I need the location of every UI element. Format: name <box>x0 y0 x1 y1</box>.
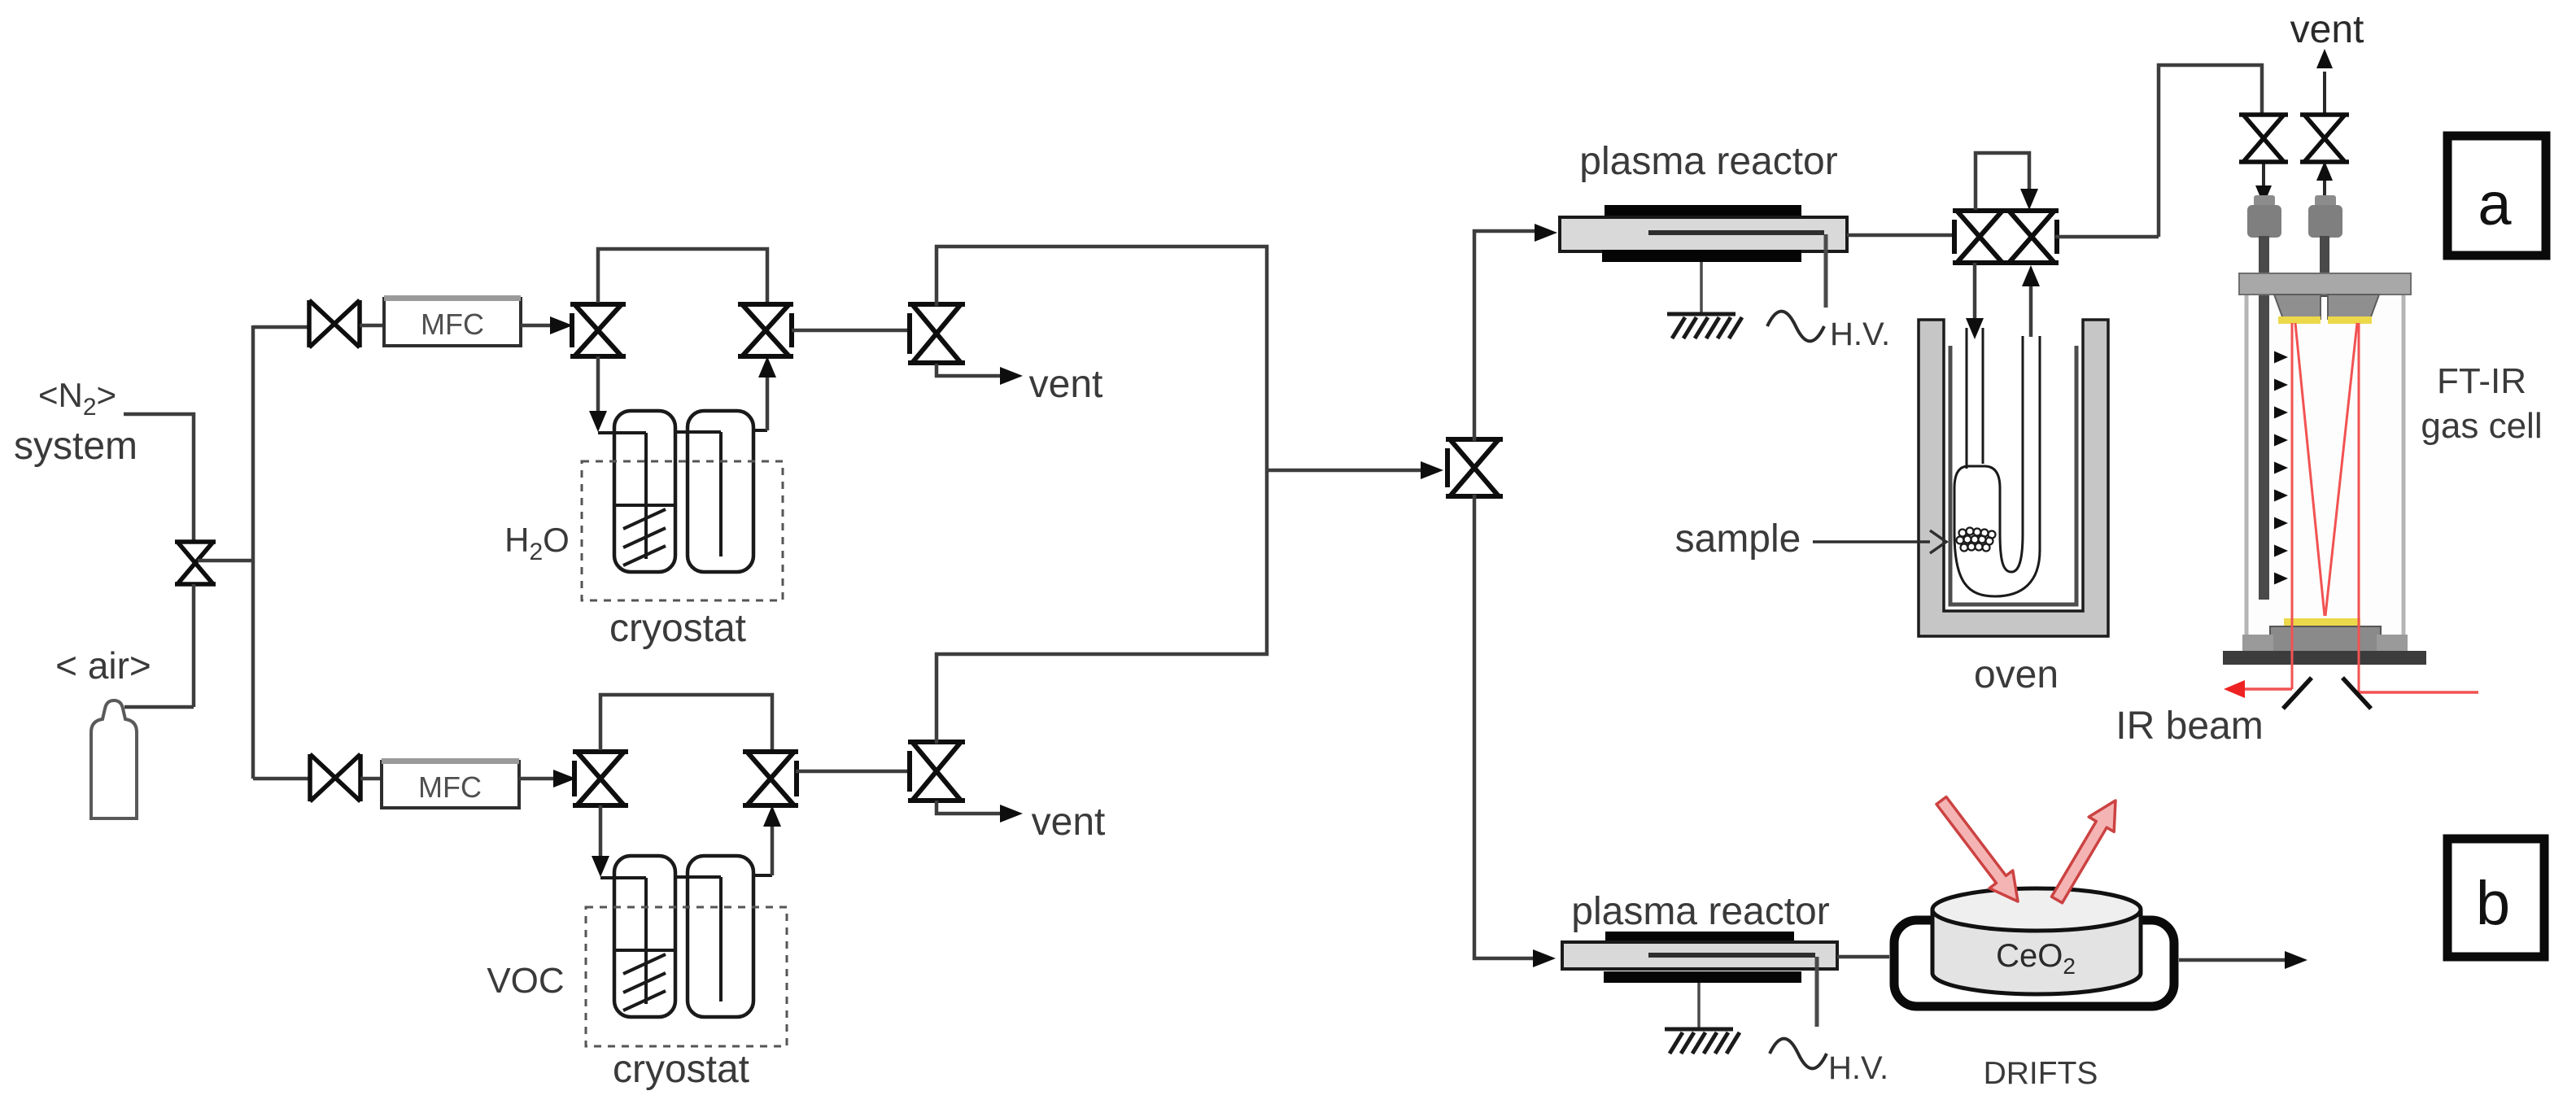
sample tube up leg <box>2023 336 2040 552</box>
svg-text:DRIFTS: DRIFTS <box>1984 1056 2098 1091</box>
sample powder <box>1957 528 1996 552</box>
node air label <box>55 644 151 687</box>
node plasma reactor label 2 <box>1571 890 1829 933</box>
wire main riser <box>251 325 255 779</box>
wire V10 to reactor a <box>1474 224 1557 441</box>
wire V11 to oven <box>1966 263 1984 339</box>
wire oven to V12 <box>2022 265 2040 337</box>
node cryostat label 2 <box>613 1048 749 1091</box>
node HV label 2 <box>1828 1050 1888 1086</box>
plasma reactor A electrode bottom <box>1602 250 1801 262</box>
wire main to valve V6 <box>253 777 312 781</box>
sample U-bend <box>1954 533 2040 596</box>
svg-text:VOC: VOC <box>487 961 564 1001</box>
node H2O label <box>504 521 570 565</box>
plasma reactor B electrode bottom <box>1604 971 1801 983</box>
wire reactor B out <box>1837 955 1889 959</box>
valve V4 H2O outlet 3-way <box>738 304 793 356</box>
wire cell outlet to vent <box>2316 49 2333 200</box>
IR beam entry right <box>2359 691 2478 694</box>
cell fitting left <box>2247 195 2281 238</box>
wire V2 to MFC1 <box>360 324 386 328</box>
cryostat box VOC <box>586 907 787 1046</box>
wire V1 to main line <box>198 559 255 563</box>
svg-text:cryostat: cryostat <box>609 607 746 650</box>
wire junction to valve V10 <box>1267 461 1443 479</box>
node IR beam label <box>2115 705 2263 748</box>
sample bulb <box>1954 466 2000 533</box>
valve V1 N2/air select <box>175 542 216 584</box>
cryostat box H2O <box>582 461 783 600</box>
ground symbol B <box>1665 983 1740 1054</box>
valve V14 cell outlet <box>2300 115 2349 162</box>
wire V7 to trap inlet <box>592 805 646 1004</box>
wire HV lead B <box>1815 957 1819 1027</box>
wire V8 to vent valve V9 <box>796 770 910 774</box>
liquid hatch T3 <box>623 954 666 1010</box>
cell window bottom <box>2284 618 2360 627</box>
wire VOC bypass loop <box>600 695 772 750</box>
wire DRIFTS out arrow <box>2179 951 2307 969</box>
oven wall <box>1919 320 2108 636</box>
cell body <box>2246 281 2404 648</box>
wire V1 to air junction <box>192 584 196 707</box>
node DRIFTS label <box>1984 1056 2098 1091</box>
svg-text:b: b <box>2476 869 2510 938</box>
wire V6 to MFC2 <box>360 777 383 781</box>
sample tube down leg <box>1967 328 1983 469</box>
svg-text:vent: vent <box>2290 8 2364 51</box>
wire T4 to valve V8 <box>753 805 781 875</box>
wire cylinder to main <box>124 705 194 709</box>
cell stem right <box>2320 236 2329 297</box>
CeO2 dish <box>1932 888 2141 994</box>
node vent label 1 <box>1029 363 1103 406</box>
cell base plate <box>2223 651 2426 665</box>
valve V5 H2O vent 3-way <box>908 304 965 363</box>
plasma reactor A tube <box>1560 217 1847 251</box>
wire sample arrow <box>1813 530 1946 553</box>
svg-text:H.V.: H.V. <box>1828 1050 1888 1086</box>
cell top cap left <box>2274 295 2321 319</box>
svg-text:vent: vent <box>1032 801 1106 844</box>
gas cylinder air <box>91 700 137 818</box>
bubbler trap T3 VOC <box>614 856 675 1017</box>
svg-text:system: system <box>14 425 138 468</box>
flow controller MFC2 <box>382 758 519 808</box>
cell top cap right <box>2328 295 2379 319</box>
node sample label <box>1675 517 1801 561</box>
wire sampling bypass <box>1976 153 2038 210</box>
plasma reactor A inner electrode <box>1648 230 1824 235</box>
svg-text:plasma reactor: plasma reactor <box>1571 890 1829 933</box>
node plasma reactor label 1 <box>1579 140 1837 183</box>
IR beam left vertical <box>2291 323 2294 689</box>
svg-text:oven: oven <box>1974 653 2059 696</box>
svg-text:gas cell: gas cell <box>2421 406 2542 446</box>
wire HV lead A <box>1824 234 1828 308</box>
mirror right <box>2342 678 2371 709</box>
node VOC label <box>487 961 564 1001</box>
wire T2 to valve V4 <box>753 356 776 430</box>
plasma reactor B inner electrode <box>1648 953 1815 958</box>
liquid level T1 <box>616 504 674 507</box>
AC source A <box>1767 312 1824 342</box>
plasma reactor B tube <box>1562 942 1837 969</box>
node vent label 2 <box>1032 801 1106 844</box>
valve V8 VOC outlet 3-way <box>743 752 798 805</box>
node FT-IR label <box>2421 361 2542 446</box>
svg-text:a: a <box>2478 170 2512 238</box>
panel label a <box>2447 136 2546 255</box>
node cryostat label 1 <box>609 607 746 650</box>
wire MFC1 to valve V3 <box>521 316 573 334</box>
IR beam arrow in <box>1936 797 2018 902</box>
svg-text:FT-IR: FT-IR <box>2437 361 2526 401</box>
svg-text:H.V.: H.V. <box>1830 316 1890 352</box>
wire V10 to reactor b <box>1474 495 1556 967</box>
valve V6 VOC shutoff <box>310 754 360 801</box>
valve V9 VOC vent 3-way <box>908 742 965 801</box>
bubbler trap T4 VOC <box>688 856 753 1017</box>
plasma reactor A electrode top <box>1605 205 1801 218</box>
svg-text:MFC: MFC <box>418 770 482 804</box>
svg-text:<N2>: <N2> <box>38 376 116 421</box>
wire V4 to vent valve V5 <box>792 329 910 333</box>
cell bottom blocks <box>2242 626 2408 652</box>
wire cell inlet arrow <box>2255 163 2272 205</box>
valve V13 cell inlet <box>2239 115 2288 162</box>
ground symbol A <box>1667 262 1742 338</box>
valve V10 central 3-way <box>1446 439 1503 496</box>
bubbler trap T1 H2O <box>614 411 675 572</box>
flow arrows in cell <box>2274 351 2288 585</box>
IR beam arrow out <box>2052 801 2116 903</box>
oven inner liner <box>1950 346 2076 604</box>
node oven label <box>1974 653 2059 696</box>
wire N2 to valve V1 <box>124 414 194 540</box>
cell window top <box>2278 316 2372 324</box>
wire V3 to trap inlet <box>589 356 646 559</box>
node HV label 1 <box>1830 316 1890 352</box>
valve V7 VOC inlet 3-way <box>573 752 628 805</box>
wire MFC2 to valve V7 <box>519 770 576 788</box>
node vent label 3 <box>2290 8 2364 51</box>
node CeO2 label <box>1996 938 2076 979</box>
bubbler trap T2 H2O <box>688 411 753 572</box>
valve V12 3-way <box>2005 211 2059 263</box>
IR beam right vertical <box>2358 323 2360 692</box>
svg-text:cryostat: cryostat <box>613 1048 749 1091</box>
wire reactor A out <box>1847 233 1954 238</box>
valve V3 H2O inlet 3-way <box>570 304 626 356</box>
svg-text:plasma reactor: plasma reactor <box>1579 140 1837 183</box>
wire V9 vent arrow <box>937 801 1023 823</box>
plasma reactor B electrode top <box>1605 932 1794 943</box>
wire trap T1 to T2 <box>675 432 721 556</box>
valve V2 H2O shutoff <box>309 300 360 347</box>
svg-text:IR beam: IR beam <box>2115 705 2263 748</box>
svg-text:sample: sample <box>1675 517 1801 561</box>
svg-text:< air>: < air> <box>55 644 151 687</box>
IR beam exit left <box>2224 680 2292 698</box>
mirror left <box>2283 678 2312 709</box>
svg-text:vent: vent <box>1029 363 1103 406</box>
wire main to valve V2 <box>253 325 309 329</box>
svg-text:MFC: MFC <box>421 308 484 341</box>
IR beam V path <box>2295 323 2357 616</box>
cell top plate <box>2239 273 2411 295</box>
cell stem left rod <box>2259 236 2269 600</box>
cell fitting right <box>2308 195 2342 238</box>
wire merge loop <box>937 247 1267 744</box>
DRIFTS cell body <box>1894 920 2174 1006</box>
wire trap T3 to T4 <box>675 877 721 1001</box>
valve V11 3-way <box>1953 211 2006 263</box>
flow controller MFC1 <box>384 295 521 346</box>
wire V12 to vent riser <box>2055 65 2262 237</box>
AC source B <box>1770 1039 1827 1069</box>
liquid level T3 <box>616 949 674 952</box>
panel label b <box>2447 839 2544 957</box>
node N2 label <box>14 376 138 468</box>
wire H2O bypass loop <box>598 249 767 303</box>
wire V5 vent arrow <box>937 364 1023 385</box>
liquid hatch T1 <box>623 509 666 565</box>
